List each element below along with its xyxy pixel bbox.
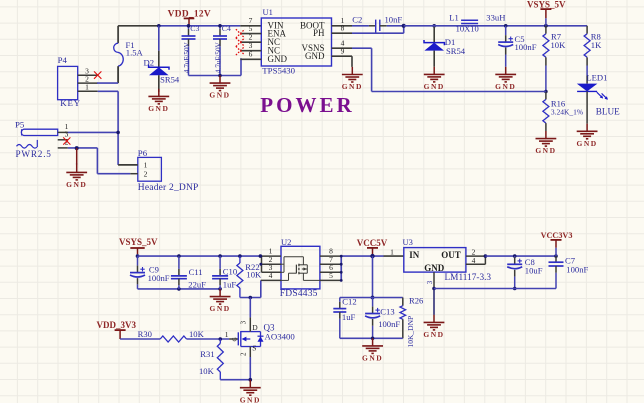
svg-text:GND: GND	[240, 395, 261, 403]
svg-text:VSYS_5V: VSYS_5V	[527, 0, 566, 9]
svg-text:IN: IN	[409, 250, 420, 260]
svg-text:GND: GND	[495, 82, 516, 91]
svg-text:3: 3	[426, 280, 434, 284]
svg-text:PH: PH	[313, 28, 325, 38]
svg-text:GND: GND	[210, 304, 231, 313]
svg-text:VCC5V: VCC5V	[357, 238, 388, 248]
svg-text:GND: GND	[423, 330, 444, 339]
svg-text:KEY: KEY	[60, 98, 81, 108]
svg-text:AO3400: AO3400	[265, 331, 296, 341]
svg-text:SR54: SR54	[446, 46, 466, 56]
svg-text:GND: GND	[362, 354, 383, 363]
svg-text:GND: GND	[268, 54, 288, 64]
svg-text:P5: P5	[15, 120, 25, 130]
svg-text:VSYS_5V: VSYS_5V	[119, 237, 158, 247]
svg-text:D: D	[252, 323, 258, 332]
svg-text:1.5A: 1.5A	[126, 48, 144, 58]
svg-text:TPS5430: TPS5430	[262, 66, 295, 76]
svg-text:C2: C2	[352, 14, 362, 24]
svg-text:10uF: 10uF	[525, 266, 543, 276]
svg-text:100nF: 100nF	[566, 264, 588, 274]
svg-text:C13: C13	[380, 306, 394, 316]
svg-text:22uF: 22uF	[188, 279, 206, 289]
svg-text:4.7uF/50V: 4.7uF/50V	[183, 41, 191, 73]
svg-text:8: 8	[341, 24, 345, 33]
svg-text:9: 9	[341, 47, 345, 56]
svg-text:100nF: 100nF	[378, 319, 400, 329]
svg-text:1: 1	[144, 161, 148, 170]
svg-text:1: 1	[390, 248, 394, 257]
svg-text:3.24K_1%: 3.24K_1%	[551, 108, 583, 117]
svg-text:R30: R30	[138, 329, 152, 339]
svg-text:GND: GND	[424, 82, 445, 91]
svg-text:4.7uF/50V: 4.7uF/50V	[214, 41, 222, 73]
svg-text:10K: 10K	[246, 270, 262, 280]
svg-text:C11: C11	[189, 267, 203, 277]
svg-text:VCC3V3: VCC3V3	[541, 231, 573, 240]
svg-text:100nF: 100nF	[515, 42, 537, 52]
svg-text:1K: 1K	[591, 40, 602, 50]
svg-text:L1: L1	[449, 13, 459, 23]
svg-text:G: G	[233, 337, 239, 342]
svg-text:VDD_3V3: VDD_3V3	[97, 320, 137, 330]
svg-text:VDD_12V: VDD_12V	[168, 10, 211, 20]
svg-text:FDS4435: FDS4435	[280, 289, 318, 299]
svg-text:C12: C12	[342, 297, 356, 307]
svg-text:3: 3	[240, 320, 248, 324]
svg-text:1: 1	[85, 83, 89, 92]
svg-text:33uH: 33uH	[486, 13, 505, 23]
svg-text:P4: P4	[58, 55, 68, 65]
svg-text:GND: GND	[66, 180, 87, 189]
svg-text:2: 2	[144, 169, 148, 178]
svg-text:POWER: POWER	[260, 93, 354, 117]
svg-text:P6: P6	[138, 148, 148, 158]
svg-text:GND: GND	[148, 104, 169, 113]
svg-text:Header 2_DNP: Header 2_DNP	[138, 183, 199, 193]
svg-text:PWR2.5: PWR2.5	[16, 149, 52, 159]
svg-text:SR54: SR54	[160, 74, 180, 84]
svg-text:4: 4	[472, 256, 476, 265]
svg-text:10K_DNP: 10K_DNP	[406, 316, 415, 348]
svg-text:OUT: OUT	[441, 250, 461, 260]
svg-text:10K: 10K	[551, 40, 567, 50]
svg-text:1uF: 1uF	[223, 279, 237, 289]
svg-text:LM1117-3.3: LM1117-3.3	[445, 273, 492, 283]
svg-text:10K: 10K	[189, 329, 205, 339]
svg-text:5: 5	[329, 271, 333, 280]
svg-text:GND: GND	[424, 263, 445, 273]
svg-text:1: 1	[225, 330, 229, 339]
svg-text:S: S	[252, 344, 256, 353]
svg-text:10K: 10K	[199, 366, 215, 376]
svg-text:GND: GND	[209, 91, 230, 100]
svg-text:GND: GND	[342, 82, 363, 91]
svg-text:GND: GND	[577, 139, 598, 148]
svg-text:U3: U3	[403, 237, 413, 247]
svg-text:4: 4	[269, 271, 273, 280]
svg-text:U2: U2	[281, 237, 291, 247]
svg-text:10nF: 10nF	[385, 14, 403, 24]
svg-text:6: 6	[249, 50, 253, 59]
svg-text:U1: U1	[263, 7, 273, 17]
svg-text:C10: C10	[223, 266, 237, 276]
svg-text:1uF: 1uF	[342, 312, 356, 322]
svg-text:100nF: 100nF	[148, 273, 170, 283]
svg-text:R31: R31	[200, 349, 214, 359]
svg-text:C4: C4	[222, 24, 231, 33]
svg-text:GND: GND	[535, 146, 556, 155]
svg-text:C3: C3	[190, 24, 199, 33]
svg-text:BLUE: BLUE	[596, 107, 620, 117]
svg-text:GND: GND	[305, 51, 325, 61]
svg-text:2: 2	[240, 352, 248, 356]
svg-text:LED1: LED1	[586, 73, 607, 83]
svg-text:R26: R26	[409, 296, 424, 306]
svg-text:D2: D2	[144, 57, 155, 67]
